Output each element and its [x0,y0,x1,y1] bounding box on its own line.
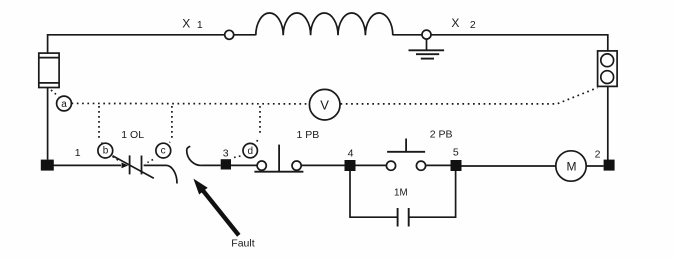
svg-text:b: b [103,146,109,157]
label 1 OL [121,129,144,141]
node c [156,143,171,158]
voltmeter V [309,89,340,120]
label X1 [182,16,203,31]
svg-text:M: M [567,160,577,174]
svg-text:a: a [61,99,67,110]
svg-text:4: 4 [348,147,354,159]
svg-text:2 PB: 2 PB [430,129,453,141]
dotted drop to node c [170,106,172,143]
node 4 [345,160,356,171]
pushbutton 2PB (normally open) [386,139,425,171]
label Fault [231,237,254,249]
dotted line voltmeter to receptacle [341,88,598,104]
terminal X1 [225,30,234,39]
wire node 5 to motor [461,165,556,167]
wire X2 to right rail [431,35,608,51]
wire 1M branch right [409,171,456,217]
dotted link node b to contact [113,157,121,162]
fuse F1 [39,53,59,87]
receptacle J1 [598,51,618,87]
wire 1PB to node 4 [301,164,344,166]
label 1M [394,188,408,199]
pushbutton 1PB (normally closed) [254,145,303,172]
wire node 4 to 2PB [356,164,387,166]
motor M1 [556,151,586,181]
label 5 [453,147,459,159]
label 1 PB [297,129,320,141]
wire node 3 to 1PB [231,164,257,166]
svg-text:5: 5 [453,147,459,159]
wire right rail lower [607,86,609,160]
label 1 [75,147,81,159]
node 1 [41,160,54,171]
dotted line node a to voltmeter [72,102,310,105]
label 4 [348,147,354,159]
svg-text:c: c [161,146,166,157]
ground [409,39,445,59]
overload 1OL [54,155,154,178]
label 2 PB [430,129,453,141]
dotted link node 3 to node d [234,156,241,158]
dotted link fuse to node a [51,90,59,97]
node a [57,96,72,111]
svg-text:3: 3 [223,147,229,159]
node 2 [604,160,615,171]
wire broken-end left hook [144,165,177,183]
node 5 [451,160,462,171]
svg-text:2: 2 [595,148,601,160]
svg-text:2: 2 [470,19,476,31]
wire left rail lower [47,88,49,160]
dotted link node c to contact [148,160,154,163]
label 2 [595,148,601,160]
svg-text:X: X [451,16,459,30]
label 3 [223,147,229,159]
node d [243,143,257,157]
wire broken-end right curl [187,146,221,165]
fault arrow [193,179,240,237]
wire top-left (left rail to terminal X1) [48,35,225,53]
wire X1 to inductor [234,34,256,36]
dotted drop to node b [99,106,102,143]
svg-text:1M: 1M [394,188,408,199]
inductor L1 [256,13,393,35]
wire 1M branch left [350,171,398,217]
svg-text:1: 1 [75,147,81,159]
svg-text:1: 1 [197,19,203,31]
svg-text:V: V [320,98,329,113]
wire inductor to terminal X2 [393,34,422,36]
svg-text:1 OL: 1 OL [121,129,144,141]
wire motor to node 2 [586,165,603,167]
svg-text:Fault: Fault [231,237,254,249]
node b [98,143,113,158]
label X2 [451,16,476,31]
node 3 [221,159,231,169]
dotted drop to node d [256,106,260,144]
svg-text:X: X [182,16,190,30]
svg-text:d: d [248,146,254,157]
wire 2PB to node 5 [426,164,451,166]
svg-text:1 PB: 1 PB [297,129,320,141]
contact 1M [398,208,409,227]
terminal X2 [422,30,431,39]
